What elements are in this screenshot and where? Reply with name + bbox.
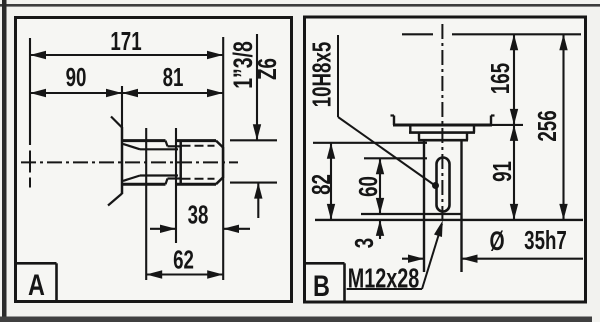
panel A frame: [16, 18, 292, 302]
extension line spline start (x=176): [175, 128, 177, 243]
body right side / dia extension: [460, 140, 462, 272]
spline runout groove top: [166, 141, 180, 147]
extension line 82 top: [313, 142, 427, 144]
svg-text:10H8x5: 10H8x5: [306, 42, 336, 108]
shaft section 1 bottom edge: [121, 183, 166, 186]
gearbox face line with break ticks: [108, 117, 122, 206]
extension line gearbox face (x=122): [121, 86, 123, 127]
extension line flange top right: [491, 124, 523, 126]
flange rim tick right: [491, 116, 495, 126]
shaft section 1 top edge: [121, 139, 166, 142]
spline root hidden line top: [182, 145, 215, 147]
svg-text:38: 38: [188, 199, 209, 229]
chamfer top right: [216, 141, 223, 148]
seal cone bottom: [123, 176, 178, 181]
scan left edge: [2, 0, 7, 322]
extension line shoulder (x=146): [145, 128, 147, 280]
svg-text:B: B: [313, 269, 330, 302]
panel B frame: [305, 17, 586, 302]
dim 171: [30, 26, 223, 59]
mounting baseline: [315, 219, 583, 221]
spline section top edge: [176, 139, 216, 142]
svg-text:165: 165: [485, 63, 515, 94]
dim 90: [30, 62, 223, 97]
extension line shaft dia bottom: [230, 182, 277, 184]
svg-text:3: 3: [349, 238, 379, 248]
dim 82: [306, 143, 336, 220]
flange surface 3: [418, 139, 468, 142]
shaft end face: [222, 147, 225, 178]
dim 3: [349, 220, 384, 248]
leader 10H8x5: [306, 35, 439, 189]
svg-text:82: 82: [306, 174, 336, 195]
flange surface 2: [409, 131, 475, 134]
svg-text:81: 81: [163, 62, 184, 92]
centerline cross at coupling end: [29, 151, 31, 188]
scan bottom edge: [0, 317, 592, 322]
dim 165: [485, 34, 518, 125]
leader M12x28: [347, 221, 443, 295]
dim 62: [146, 244, 223, 278]
svg-text:91: 91: [487, 161, 517, 182]
dim 81: [122, 62, 223, 97]
flange step 2 sides: [419, 133, 467, 141]
dim 91: [487, 125, 518, 220]
dim 1"3/8 Z6 shaft diameter: [228, 34, 281, 218]
svg-text:35h7: 35h7: [524, 225, 567, 255]
svg-text:171: 171: [110, 26, 141, 56]
spline section bottom edge: [176, 183, 216, 186]
spline runout groove bottom: [166, 179, 180, 185]
chamfer bottom right: [216, 177, 223, 184]
body left side / dia extension: [423, 140, 425, 272]
scan top edge: [0, 4, 600, 7]
seal cone top: [123, 144, 178, 149]
svg-text:256: 256: [532, 110, 562, 141]
hub bottom line: [361, 213, 462, 215]
svg-text:60: 60: [353, 176, 383, 197]
view label box B: [305, 263, 345, 302]
dim dia 35h7: [402, 225, 583, 263]
dim 60: [353, 158, 384, 214]
view label box A: [17, 263, 57, 301]
extension line motor face top: [402, 33, 581, 35]
extension line shaft dia top: [230, 139, 277, 141]
extension line shaft end (x=223): [222, 37, 224, 280]
flange step 1 sides: [410, 125, 474, 133]
spline root hidden line bottom: [182, 178, 215, 180]
flange top surface: [393, 124, 492, 127]
svg-text:Ø: Ø: [489, 226, 504, 256]
spline section left face: [179, 141, 182, 185]
svg-text:Z6: Z6: [252, 58, 282, 80]
svg-text:90: 90: [66, 62, 87, 92]
extension line left (x=30): [29, 38, 31, 145]
centerline output axis view B: [441, 24, 443, 220]
centerline shaft axis view A: [21, 161, 238, 163]
svg-text:62: 62: [173, 244, 194, 274]
dim 38: [150, 199, 250, 233]
svg-text:A: A: [28, 268, 45, 301]
dim 256: [532, 34, 568, 220]
extension line 60 top: [364, 157, 427, 159]
keyway slot: [437, 158, 450, 212]
flange rim tick left: [391, 116, 395, 126]
